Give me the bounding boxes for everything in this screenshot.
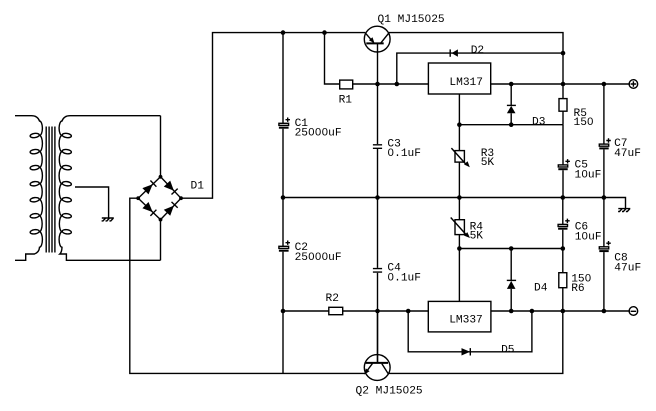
node mid rail junction C3/C4	[375, 195, 380, 200]
node D2 / Q1 riser junction	[561, 51, 566, 56]
svg-text:25000uF: 25000uF	[295, 252, 342, 264]
svg-text:R2: R2	[326, 293, 339, 305]
svg-text:0.1uF: 0.1uF	[387, 272, 421, 284]
node D2 riser junction	[395, 82, 400, 87]
svg-text:D3: D3	[532, 117, 545, 129]
node Q1 top rail junction C1	[281, 30, 286, 35]
wire ADJ2 line	[459, 248, 562, 250]
svg-text:47uF: 47uF	[614, 263, 641, 275]
terminal minus output	[629, 307, 638, 316]
resistor R6 150	[559, 249, 592, 312]
node ADJ junction D3	[509, 122, 514, 127]
capacitor C1 25000uF	[279, 33, 342, 198]
svg-text:47uF: 47uF	[614, 148, 641, 160]
node ADJ2 junction D4	[509, 246, 514, 251]
wire LM337 ADJ	[458, 249, 460, 302]
wire secondary bottom to bridge	[160, 220, 162, 261]
variable resistor R3 5K	[451, 125, 494, 198]
wire LM317 output rail to plus terminal	[491, 83, 630, 85]
node ADJ2 junction C6/R6	[561, 246, 566, 251]
svg-text:D2: D2	[471, 45, 484, 57]
ground (right, mid rail)	[618, 209, 630, 212]
transformer T1 secondary winding	[59, 116, 160, 261]
diode D3	[507, 84, 546, 129]
resistor R5 150	[559, 99, 594, 130]
node output junction D3	[509, 82, 514, 87]
transformer T1 primary winding	[15, 116, 42, 261]
node ADJ2 junction R4	[457, 246, 462, 251]
wire ADJ line	[459, 124, 563, 126]
capacitor C3 0.1uF	[373, 84, 421, 198]
resistor R2	[283, 293, 428, 315]
svg-text:Q1 MJ15025: Q1 MJ15025	[378, 14, 445, 26]
node Q2 base / R2 line junction	[375, 309, 380, 314]
diode D4	[507, 249, 548, 312]
svg-text:R6: R6	[571, 283, 584, 295]
svg-text:LM337: LM337	[449, 314, 483, 326]
wire LM317 ADJ	[458, 94, 460, 125]
wire bridge minus output to bottom rail	[130, 198, 365, 373]
capacitor C7 47uF	[599, 84, 641, 198]
node mid rail junction C1/C2	[281, 195, 286, 200]
wire Q1 collector to right riser	[389, 33, 563, 99]
node output junction R6 / bottom rail riser	[561, 309, 566, 314]
bridge rectifier D1	[136, 175, 204, 222]
capacitor C8 47uF	[599, 198, 641, 312]
resistor R1	[325, 33, 429, 107]
wire LM337 output rail to minus terminal	[491, 310, 630, 312]
terminal plus output	[629, 80, 638, 89]
capacitor C4 0.1uF	[373, 198, 421, 363]
svg-text:5K: 5K	[470, 231, 484, 243]
svg-text:D1: D1	[191, 181, 205, 193]
node mid rail junction R3/R4	[457, 195, 462, 200]
svg-text:25000uF: 25000uF	[295, 128, 342, 140]
diode D2	[397, 45, 563, 84]
wire Q2 collector to negative rail riser	[388, 311, 563, 373]
wire center tap	[75, 187, 109, 218]
svg-text:D4: D4	[534, 283, 548, 295]
node output junction C7	[602, 82, 607, 87]
svg-text:5K: 5K	[481, 157, 495, 169]
node top rail junction R1 feeder	[322, 30, 327, 35]
node output junction D5	[530, 309, 535, 314]
ground (center tap)	[102, 218, 114, 221]
svg-text:R1: R1	[339, 94, 353, 106]
svg-text:150: 150	[574, 117, 594, 129]
node D5 riser junction	[406, 309, 411, 314]
diode D5	[408, 311, 532, 357]
node output junction D4	[509, 309, 514, 314]
wire mid rail	[283, 198, 626, 209]
node Q1 base / R1 line junction	[375, 82, 380, 87]
transistor Q2 MJ15025	[356, 311, 423, 397]
svg-text:0.1uF: 0.1uF	[387, 148, 421, 160]
svg-text:D5: D5	[501, 345, 514, 357]
op-amp U2 LM337 regulator box	[428, 301, 491, 332]
svg-text:10uF: 10uF	[575, 169, 602, 181]
node output junction C8	[602, 309, 607, 314]
node C2 line / R2 junction	[281, 309, 286, 314]
wire secondary top to bridge	[160, 116, 162, 177]
svg-text:Q2 MJ15025: Q2 MJ15025	[356, 385, 423, 397]
svg-text:LM317: LM317	[449, 77, 483, 89]
node mid rail junction C7/C8	[602, 195, 607, 200]
variable resistor R4 5K	[451, 198, 484, 249]
transformer T1 core	[46, 127, 55, 253]
capacitor C6 10uF	[558, 198, 601, 249]
node ADJ junction R3	[457, 122, 462, 127]
svg-text:10uF: 10uF	[575, 232, 602, 244]
op-amp U1 LM317 regulator box	[428, 63, 490, 94]
node output junction R5	[561, 82, 566, 87]
node mid rail junction C5/C6	[561, 195, 566, 200]
transistor Q1 MJ15025	[364, 14, 444, 84]
capacitor C5 10uF	[558, 125, 601, 198]
capacitor C2 25000uF	[279, 198, 342, 374]
wire bridge plus output to top rail	[181, 33, 365, 199]
